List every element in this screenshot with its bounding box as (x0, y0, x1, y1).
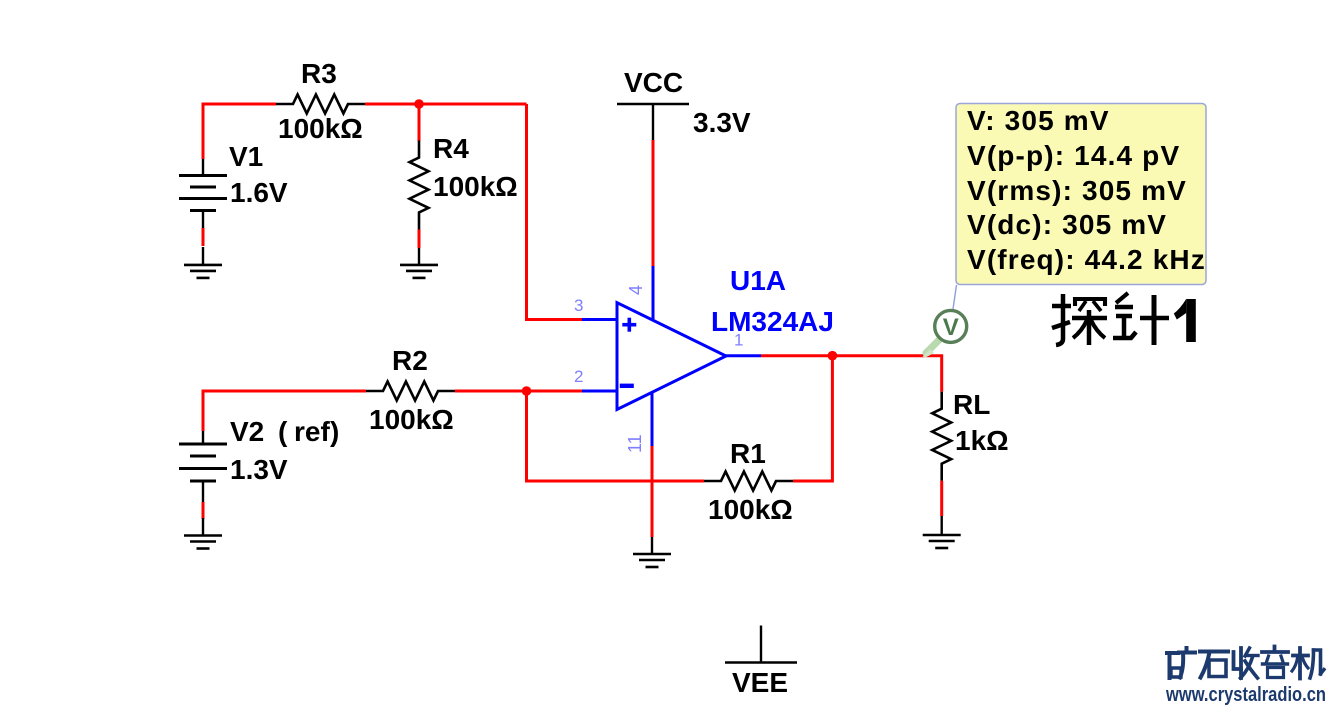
svg-text:R3: R3 (301, 58, 337, 89)
wire VCC to pin4 (652, 140, 655, 266)
value 100kΩ (R4) (433, 171, 518, 202)
svg-text:V(p-p): 14.4 pV: V(p-p): 14.4 pV (967, 140, 1180, 171)
resistor R1 (704, 472, 793, 491)
wire down to op-amp pin3 (527, 104, 583, 320)
svg-text:R4: R4 (433, 133, 469, 164)
power VCC symbol (617, 104, 689, 140)
svg-text:ref: ref (294, 416, 330, 447)
probe circle V (935, 310, 967, 342)
svg-text:VCC: VCC (624, 67, 683, 98)
label R1 (730, 438, 766, 469)
svg-text:V2: V2 (230, 416, 264, 447)
svg-text:3.3V: 3.3V (693, 107, 751, 138)
wire output net (761, 356, 942, 392)
wire V2 bottom (202, 502, 205, 519)
ground under pin 11 (633, 537, 671, 567)
ground under V2 (184, 518, 222, 549)
probe tooltip box (956, 104, 1206, 285)
value 3.3V (693, 107, 751, 138)
label R4 (433, 133, 469, 164)
value 100kΩ (R3) (278, 113, 363, 144)
output pin stub (726, 354, 761, 357)
pin 4 stub (652, 266, 655, 320)
svg-text:V(rms): 305 mV: V(rms): 305 mV (967, 175, 1187, 206)
svg-text:4: 4 (626, 285, 646, 295)
svg-text:V(freq): 44.2 kHz: V(freq): 44.2 kHz (967, 244, 1206, 275)
pin 11 stub (651, 392, 654, 446)
pin 2 stub (582, 390, 617, 393)
pin number 2 (574, 367, 583, 386)
svg-text:100kΩ: 100kΩ (433, 171, 518, 202)
svg-text:1.3V: 1.3V (230, 454, 288, 485)
svg-text:1kΩ: 1kΩ (955, 425, 1009, 456)
wire V2 top to R2 left (203, 391, 366, 431)
op-amp plus mark (622, 318, 636, 332)
label VCC (624, 67, 683, 98)
pin 3 stub (582, 318, 617, 321)
value 100kΩ (R2) (369, 404, 454, 435)
pin number 3 (574, 296, 583, 315)
svg-text:1.6V: 1.6V (230, 177, 288, 208)
svg-text:R1: R1 (730, 438, 766, 469)
node C junction dot (828, 351, 838, 361)
ground under RL (923, 516, 961, 548)
wire R4 bottom (418, 230, 421, 249)
wire R1 right up to output node C (793, 356, 832, 481)
label V1 (229, 141, 263, 172)
watermark logo 矿石收音机 (drawn strokes) (1167, 647, 1324, 679)
wire V1 top to R3 left (203, 104, 276, 159)
svg-text:11: 11 (625, 434, 645, 453)
svg-text:V1: V1 (229, 141, 263, 172)
svg-text:R2: R2 (392, 345, 428, 376)
watermark url www.crystalradio.cn (1165, 684, 1326, 706)
probe name 探针1 (drawn strokes) (1052, 293, 1169, 345)
wire R3 right to node A to pin3 corner (365, 103, 527, 106)
wire V1 bottom (202, 228, 205, 246)
battery V1 (179, 159, 227, 228)
wire node A to R4 top (418, 104, 421, 141)
svg-text:100kΩ: 100kΩ (369, 404, 454, 435)
svg-text:V: V (943, 314, 959, 341)
label VEE (732, 667, 788, 698)
svg-text:): ) (330, 416, 339, 447)
svg-text:RL: RL (953, 389, 990, 420)
svg-text:www.crystalradio.cn: www.crystalradio.cn (1165, 684, 1326, 706)
value 1.6V (230, 177, 288, 208)
label V2 (ref) (230, 416, 339, 447)
svg-text:U1A: U1A (730, 265, 786, 296)
probe reading V (967, 105, 1110, 136)
wire node B down and feedback left segment (527, 391, 705, 481)
op-amp U1 triangle (617, 303, 726, 410)
svg-text:100kΩ: 100kΩ (278, 113, 363, 144)
resistor R3 (276, 95, 365, 114)
resistor R2 (366, 382, 455, 401)
label U1A (730, 265, 786, 296)
probe tooltip callout line (953, 285, 957, 309)
svg-text:3: 3 (574, 296, 583, 315)
svg-text:(: ( (278, 416, 288, 447)
probe reading V(dc) (967, 209, 1167, 240)
resistor R4 (410, 141, 429, 230)
ground under R4 (400, 248, 438, 278)
op-amp minus mark (620, 384, 634, 388)
wire R2 right to node B to pin2 (455, 390, 582, 393)
svg-text:2: 2 (574, 367, 583, 386)
pin number 11 (625, 434, 645, 453)
probe reading V(p-p) (967, 140, 1180, 171)
svg-text:V(dc): 305 mV: V(dc): 305 mV (967, 209, 1167, 240)
pin number 4 (626, 285, 646, 295)
ground under V1 (184, 247, 222, 278)
probe reading V(freq) (967, 244, 1206, 275)
label R2 (392, 345, 428, 376)
svg-text:VEE: VEE (732, 667, 788, 698)
battery V2 (179, 431, 227, 502)
wire pin11 to ground (651, 446, 654, 537)
node A junction dot (414, 99, 424, 109)
label RL (953, 389, 990, 420)
svg-text:V: 305 mV: V: 305 mV (967, 105, 1110, 136)
pin number 1 (734, 331, 743, 350)
resistor RL (932, 392, 951, 481)
probe handle (923, 339, 941, 358)
node B junction dot (522, 386, 532, 396)
value 1.3V (230, 454, 288, 485)
svg-text:100kΩ: 100kΩ (708, 494, 793, 525)
value 100kΩ (R1) (708, 494, 793, 525)
label LM324AJ (711, 306, 834, 337)
label R3 (301, 58, 337, 89)
power VEE symbol (725, 626, 797, 663)
svg-text:LM324AJ: LM324AJ (711, 306, 834, 337)
wire RL bottom (940, 481, 943, 516)
probe reading V(rms) (967, 175, 1187, 206)
value 1kΩ (955, 425, 1009, 456)
